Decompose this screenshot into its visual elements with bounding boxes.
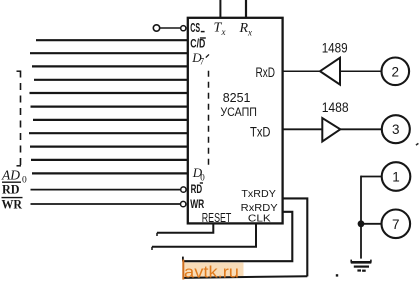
svg-text:x: x: [221, 27, 226, 37]
svg-text:TxD: TxD: [250, 124, 271, 139]
svg-text:1489: 1489: [322, 41, 348, 56]
svg-text:RESET: RESET: [202, 211, 232, 225]
svg-text:avtk.ru: avtk.ru: [184, 263, 239, 281]
svg-text:CS: CS: [190, 20, 200, 35]
svg-text:x: x: [247, 27, 252, 37]
svg-text:WR: WR: [2, 197, 23, 211]
svg-text:TxRDY: TxRDY: [241, 188, 276, 200]
svg-text:7: 7: [200, 57, 205, 67]
svg-text:RxD: RxD: [256, 65, 276, 80]
svg-text:1: 1: [392, 170, 400, 185]
svg-text:WR: WR: [190, 197, 204, 211]
svg-text:0: 0: [22, 175, 27, 185]
svg-text:C/D: C/D: [190, 38, 205, 50]
svg-text:8251: 8251: [223, 90, 251, 105]
svg-text:RD: RD: [191, 184, 203, 196]
svg-text:CLK: CLK: [248, 214, 271, 225]
svg-text:3: 3: [392, 122, 400, 137]
svg-text:УСАПП: УСАПП: [220, 105, 257, 119]
svg-text:7: 7: [392, 217, 400, 232]
svg-text:2: 2: [392, 64, 400, 79]
svg-text:R: R: [239, 21, 249, 36]
svg-text:RD: RD: [2, 182, 20, 196]
svg-text:1488: 1488: [322, 100, 349, 115]
svg-text:AD: AD: [1, 168, 20, 183]
svg-text:0: 0: [200, 172, 205, 182]
svg-text:RxRDY: RxRDY: [241, 202, 278, 214]
